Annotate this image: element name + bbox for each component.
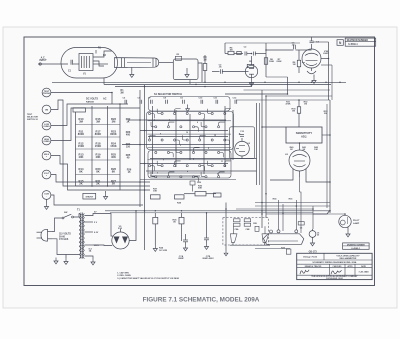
svg-text:OHMS: OHMS [43,126,50,128]
title block row3 [297,266,372,268]
svg-text:800K: 800K [78,132,84,136]
svg-text:SCHEMATIC WIRING DIAGRAM MODEL: SCHEMATIC WIRING DIAGRAM MODEL 209A [312,261,356,264]
svg-text:10K: 10K [153,191,157,193]
output switch body [263,234,303,245]
svg-text:20MF: 20MF [178,258,184,260]
resistor R4b [237,52,242,55]
terminal wire 7 [51,195,143,205]
revision letter box [337,40,343,46]
tube V1A envelope [245,65,257,77]
V4 pin wires [270,175,293,180]
filter cap C7B [204,238,209,240]
tube V1B envelope [302,49,321,68]
wires across right mid [255,202,330,204]
terminal wire 6 [51,175,150,183]
svg-text:1- CAP. MFD: 1- CAP. MFD [117,271,129,274]
wiper SW-B [262,234,269,243]
svg-text:40K: 40K [79,155,84,159]
resistor R27 [151,195,161,199]
svg-text:OHMS: OHMS [43,141,50,143]
lamp feed [344,214,346,215]
svg-text:DATE: DATE [361,265,367,268]
svg-text:10K: 10K [314,149,318,151]
svg-text:2K: 2K [79,182,82,186]
matrix top component [73,108,86,112]
svg-text:Voltage 70-60: Voltage 70-60 [303,256,318,259]
T1 primary bottom [52,239,79,255]
resistor R4 grid [228,51,234,54]
wiper SW-A [230,234,237,243]
terminal wire 3 [51,104,128,126]
bus wire C [115,86,252,88]
svg-text:SW: SW [64,212,67,214]
V1B cathode arc [307,71,316,74]
grid resistor R8 [297,60,300,67]
vertical trunk B [144,85,146,250]
small component K1 [214,193,222,197]
capacitor C1 in probe [71,60,73,65]
svg-text:400: 400 [126,134,131,137]
svg-text:3: 3 [180,145,181,147]
svg-text:10: 10 [186,132,188,134]
svg-text:INPUT: INPUT [39,59,47,62]
svg-text:150K: 150K [78,144,84,148]
bus wire B [104,83,331,85]
svg-text:FIGURE 7.1 SCHEMATIC, MODEL: FIGURE 7.1 SCHEMATIC, MODEL 209A [143,297,260,304]
svg-text:1M: 1M [229,50,232,52]
terminal J3 [42,121,51,130]
sensitivity box feed [262,126,286,128]
svg-text:SWITCH S1: SWITCH S1 [27,119,39,121]
svg-text:2K: 2K [112,182,115,186]
svg-text:8: 8 [160,134,161,136]
svg-text:LAMP: LAMP [353,222,360,225]
terminal J4 [42,136,51,145]
T1 grounds [91,259,95,265]
svg-text:S1 SELECTOR SWITCH: S1 SELECTOR SWITCH [154,93,182,96]
title block outline [297,253,372,279]
terminal J6 [42,170,51,179]
svg-text:PILOT: PILOT [353,220,360,222]
svg-text:APPD: APPD [348,265,354,268]
terminal J2 [42,105,51,114]
component stack bottom [286,249,291,254]
horizontal tie 3 [236,99,330,101]
AC plug [41,229,48,241]
svg-text:220K: 220K [276,61,282,63]
twin-T resistor [247,64,254,67]
svg-text:150: 150 [126,146,131,149]
terminal wire 4 [51,108,140,141]
output switch terminals [270,230,273,233]
svg-text:ADJ.: ADJ. [301,135,307,139]
capsule drop wire [103,78,105,84]
probe capsule outline [61,48,118,79]
S1 wafer box 1 [149,97,231,112]
svg-text:115 VOLTS: 115 VOLTS [59,234,71,236]
svg-text:CLEVELAND, OHIO: CLEVELAND, OHIO [326,277,344,280]
svg-text:5: 5 [208,148,209,150]
svg-text:C8A: C8A [234,228,239,231]
revisions box [345,38,376,46]
probe tube wiring [93,51,112,57]
svg-text:470K: 470K [286,103,291,106]
horizontal tie 1 [266,95,332,97]
vertical trunk D [261,90,263,228]
resistor R24 [153,217,158,224]
svg-text:6: 6 [197,122,198,124]
matrix rails [75,112,77,186]
V1B plate wire [321,58,329,60]
vertical trunk A [139,90,141,207]
tube V4 envelope [289,150,310,171]
matrix bottom ground [105,191,107,193]
S1 wiring horizontals [128,119,226,121]
horizontal tie 2 [244,89,331,91]
title block row2 [297,263,372,265]
S1 wafer box 3 [148,151,231,179]
rectifier V5 [112,232,129,249]
vertical trunk E2 [326,104,328,208]
svg-text:8K: 8K [96,170,99,174]
svg-text:7-28-1948: 7-28-1948 [359,270,370,273]
svg-text:6-4549-1: 6-4549-1 [351,247,361,250]
svg-text:1M: 1M [292,111,295,113]
svg-text:C8B: C8B [245,229,250,231]
resistor R26 [195,192,206,196]
matrix bottom component [83,193,96,199]
S1 contact dots [148,112,150,114]
svg-text:20MF 450V: 20MF 450V [202,257,214,260]
component C5 stack [298,222,304,225]
switch underline [230,244,270,246]
vertical trunk E [329,100,331,213]
svg-text:MILLIAMMETER: MILLIAMMETER [340,257,357,260]
svg-text:REVISION NUMBER: REVISION NUMBER [347,40,369,42]
capacitor C2 input [221,69,223,74]
svg-text:RANGE: RANGE [86,101,94,104]
vertical trunk C [256,103,258,185]
twin capacitor C2b [254,52,256,56]
terminal J1 [42,88,51,97]
svg-text:SENSITIVITY: SENSITIVITY [296,131,313,135]
rectifier wiring [104,214,113,237]
svg-text:40K: 40K [111,155,116,159]
svg-text:6-4549-1: 6-4549-1 [348,43,358,46]
svg-text:2: 2 [157,173,158,175]
V1A grid wiring [225,53,228,55]
probe wand body [115,58,159,68]
S1 wiring verticals [152,106,154,174]
cap stack C8A [234,219,241,222]
tube V2 envelope [235,141,250,156]
probe wand ground [131,68,133,72]
svg-text:VOLT-OHM-CAPACITY: VOLT-OHM-CAPACITY [336,254,360,257]
terminal J7 [42,191,51,200]
svg-text:11: 11 [221,161,223,163]
resistor R3 [203,64,207,71]
resistor R28 [175,195,185,199]
right trunk upper [328,42,330,100]
terminal wire 1 [51,93,112,105]
svg-text:800K: 800K [110,132,116,136]
svg-text:CHECKED: CHECKED [333,266,343,268]
svg-text:1M: 1M [293,64,296,66]
svg-text:R28: R28 [253,223,256,225]
drawing number box [343,243,370,249]
svg-text:3K: 3K [173,222,176,224]
svg-text:2K: 2K [96,182,99,186]
pilot lamp [339,215,351,227]
title block row1 [297,259,372,261]
component R28b [255,226,259,231]
S1 contact hooks [151,114,155,119]
svg-text:2- RES. OHMS: 2- RES. OHMS [117,275,131,277]
svg-text:PRONG: PRONG [43,93,51,95]
resistor R30 [297,107,300,114]
svg-text:1K: 1K [126,120,129,123]
svg-text:6: 6 [217,174,218,176]
svg-text:50-60: 50-60 [59,236,66,238]
svg-text:800K: 800K [95,132,101,136]
probe tube elements [79,54,93,71]
coupling cap C3 [294,45,296,50]
svg-text:DRAWING NUMBER: DRAWING NUMBER [347,243,366,246]
probe wand detail lines [121,58,123,68]
S1 capacitor row [125,100,127,104]
svg-text:SHUNT: SHUNT [86,197,94,199]
S1 row bus pairs [148,120,232,122]
pilot lamp ground [347,227,349,230]
svg-text:6.3V: 6.3V [94,232,99,234]
svg-text:AC: AC [103,98,107,101]
shield box [173,59,198,80]
svg-text:100K: 100K [269,61,275,63]
T1 secondary taps [84,214,104,216]
svg-text:8K: 8K [79,170,82,174]
V1A ground [251,79,253,80]
svg-text:3-) CAPACITOR SHAFT VALUES AT: 3-) CAPACITOR SHAFT VALUES AT 60 CYCLE S… [117,277,179,280]
S2 trunk [225,203,227,251]
matrix row ticks [76,124,121,126]
sensitivity box [286,127,322,143]
terminal ground [46,199,48,203]
svg-text:1K 10W: 1K 10W [159,250,168,252]
vertical component stack [190,181,195,185]
bus wire A [52,81,346,83]
svg-text:150K: 150K [110,144,116,148]
S1 cap row ground [187,105,189,106]
svg-text:40K: 40K [96,155,101,159]
output switch wires down [278,200,280,230]
filter cap C7A [183,240,188,242]
terminal J5 [42,151,51,160]
A.C. input lead [38,63,68,65]
S1 wafer box 2 [147,112,234,150]
svg-text:DRAWN & TRACED: DRAWN & TRACED [305,265,322,268]
title block signatures [297,274,372,276]
electrolytic C6 [309,231,316,238]
svg-text:8K: 8K [112,170,115,174]
power transformer T1 [79,214,80,218]
svg-text:3M: 3M [120,92,123,94]
on-off switch S4 [62,217,64,219]
svg-text:DC VOLTS: DC VOLTS [86,98,98,101]
B+ bus [105,210,330,212]
svg-text:2M: 2M [324,113,327,115]
neon lamp box [230,127,255,159]
svg-text:1M: 1M [304,104,307,106]
svg-text:150K: 150K [95,144,101,148]
cap stack C8B [244,219,251,222]
V1B top cap [310,41,314,43]
S2 dashed box [223,217,269,245]
terminal wire 2 [51,100,150,186]
plate feed R6 [265,43,267,77]
feedback loop wire [225,77,288,94]
svg-text:7: 7 [163,160,164,162]
twin capacitor C2a [245,52,247,56]
svg-text:OM: OM [45,110,49,112]
border frame [24,37,375,286]
svg-text:CYCLES: CYCLES [59,239,69,241]
filter resistor R25 [179,217,184,224]
junction dots [204,82,206,84]
terminal wire 5 [51,156,150,191]
svg-text:50K: 50K [198,188,202,190]
